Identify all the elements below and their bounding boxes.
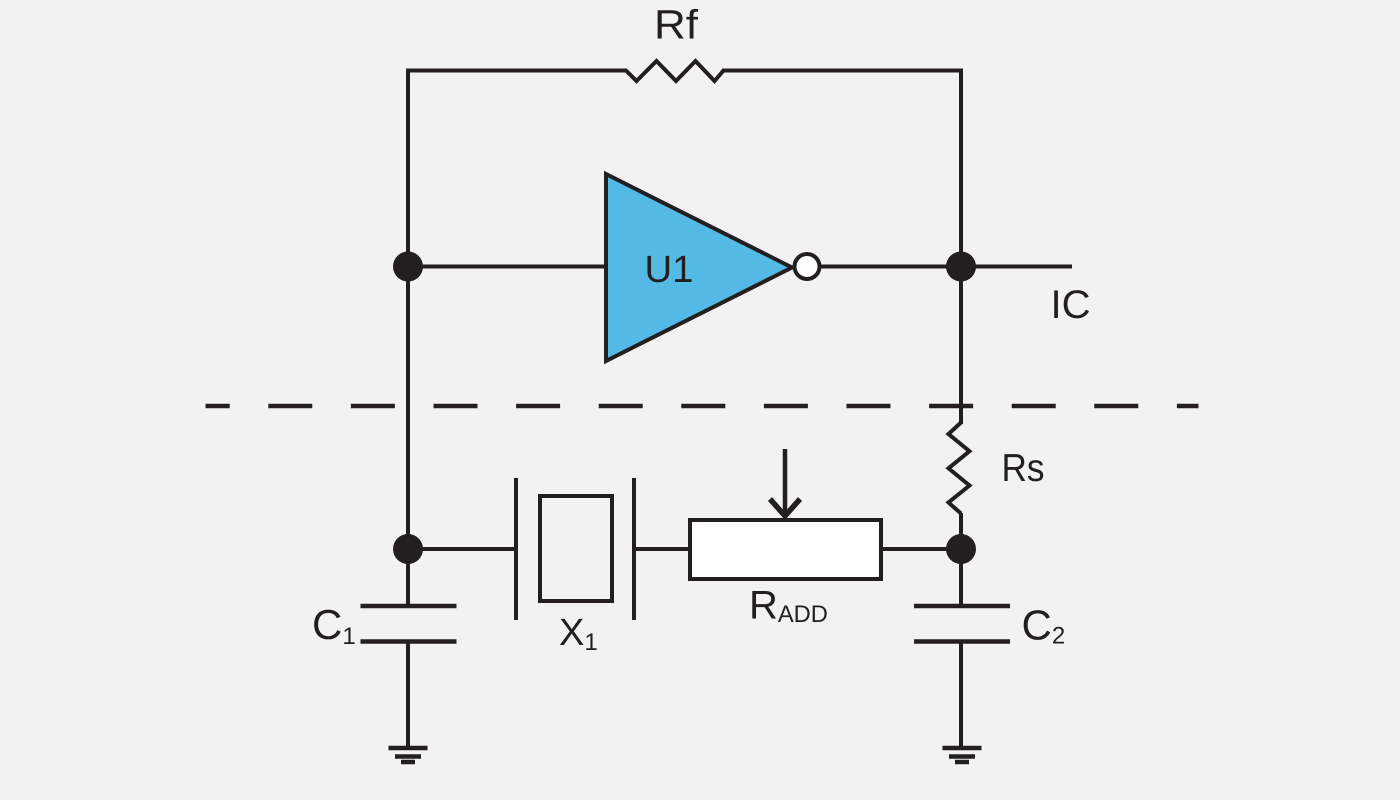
ground (right) xyxy=(943,748,982,762)
crystal X1 left electrode xyxy=(514,478,518,620)
resistor Rs xyxy=(949,423,970,514)
inverter output bubble xyxy=(795,254,820,279)
potentiometer wiper arrow shaft xyxy=(783,449,788,514)
svg-text:IC: IC xyxy=(1051,283,1091,327)
capacitor C2 bottom plate xyxy=(914,639,1010,644)
wire: top feedback right segment xyxy=(722,71,961,269)
wire: right rail lower (Rs to node) xyxy=(959,513,963,550)
wire: C2 stem top xyxy=(959,548,963,606)
crystal X1 body xyxy=(540,496,612,601)
svg-text:Rf: Rf xyxy=(654,2,699,48)
svg-text:Rs: Rs xyxy=(1002,447,1045,490)
wire: node to crystal xyxy=(408,547,517,551)
wire: inverter input xyxy=(408,265,607,269)
node C (crystal / C1 junction) xyxy=(393,534,423,564)
node A (inverter input junction) xyxy=(393,252,423,282)
wire: crystal to potentiometer xyxy=(634,547,691,551)
wire: left rail (input node to C1) xyxy=(406,265,410,606)
wire: top feedback left segment xyxy=(408,71,627,269)
wire: potentiometer to node xyxy=(880,547,961,551)
capacitor C1 top plate xyxy=(361,604,457,609)
node D (Rs / C2 junction) xyxy=(946,534,976,564)
potentiometer RADD body xyxy=(690,520,881,579)
wire: C1 to ground xyxy=(406,641,410,750)
capacitor C1 bottom plate xyxy=(361,639,457,644)
ground (left) xyxy=(389,748,428,762)
node B (inverter output junction) xyxy=(946,252,976,282)
crystal X1 right electrode xyxy=(632,478,636,620)
wire: inverter output xyxy=(821,265,961,269)
dashed divider line xyxy=(206,404,1199,409)
capacitor C2 top plate xyxy=(914,604,1010,609)
svg-text:U1: U1 xyxy=(645,249,694,291)
wire: C2 to ground xyxy=(959,641,963,750)
resistor Rf xyxy=(626,61,724,81)
wire: IC output stub xyxy=(961,265,1072,269)
potentiometer wiper arrow head xyxy=(770,499,800,516)
op-amp inverter U1 xyxy=(606,174,792,361)
wire: right rail upper (to Rs) xyxy=(959,265,963,424)
